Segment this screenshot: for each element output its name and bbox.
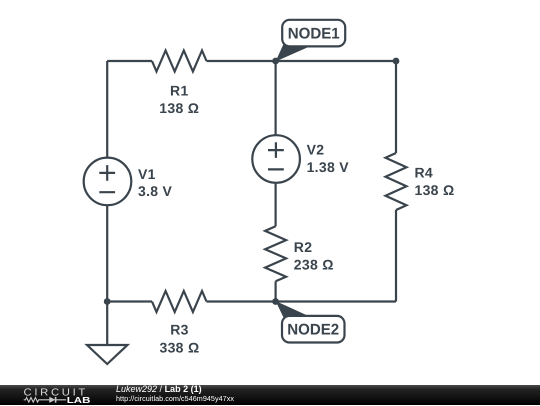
node NODE2 flag xyxy=(276,301,345,343)
svg-text:138 Ω: 138 Ω xyxy=(159,100,199,116)
wire bottom-left horizontal xyxy=(107,300,152,302)
svg-text:V1: V1 xyxy=(138,166,156,182)
svg-text:NODE2: NODE2 xyxy=(287,322,339,339)
svg-text:238 Ω: 238 Ω xyxy=(294,257,334,273)
wire middle rail upper (NODE1 junction to V2 top) xyxy=(275,61,277,135)
wire top horizontal NODE1 junction to top-right corner xyxy=(276,60,396,62)
svg-text:1.38 V: 1.38 V xyxy=(307,159,350,175)
wire bottom horizontal R3 to NODE2 junction xyxy=(207,300,276,302)
wire right rail upper (corner to R4 top) xyxy=(395,61,397,153)
wire middle rail (V2 bottom to R2 top) xyxy=(275,183,277,227)
node NODE2 junction dot xyxy=(272,298,279,305)
CircuitLab logo xyxy=(0,385,110,406)
svg-text:V2: V2 xyxy=(307,141,325,157)
wire bottom horizontal NODE2 junction to bottom-right corner xyxy=(276,300,396,302)
wire top-left horizontal xyxy=(107,60,152,62)
svg-text:R1: R1 xyxy=(170,83,189,99)
node NODE1 flag xyxy=(276,20,346,62)
wire ground stem xyxy=(106,302,108,346)
label V2 value xyxy=(307,141,350,175)
label V1 value xyxy=(138,166,173,199)
node NODE1 junction dot xyxy=(272,58,279,65)
voltage source V1 xyxy=(84,158,132,206)
resistor R2 xyxy=(265,226,286,281)
wire left rail upper (V1 top to corner) xyxy=(106,61,108,158)
node bottom-left junction dot xyxy=(104,298,111,305)
wire top horizontal R1 to NODE1 junction xyxy=(207,60,276,62)
svg-text:3.8 V: 3.8 V xyxy=(138,183,173,199)
resistor R4 xyxy=(386,153,407,210)
footer credit text xyxy=(116,385,234,404)
svg-text:LAB: LAB xyxy=(67,395,91,405)
label R1 value xyxy=(159,83,199,117)
label R4 value xyxy=(415,164,455,198)
label R3 value xyxy=(160,322,200,356)
ground xyxy=(87,345,127,364)
svg-text:R2: R2 xyxy=(294,239,313,255)
wire middle rail lower (R2 bottom to NODE2 junction) xyxy=(275,281,277,301)
svg-text:NODE1: NODE1 xyxy=(288,25,340,42)
wire right rail lower (R4 bottom to corner) xyxy=(395,210,397,302)
svg-text:138 Ω: 138 Ω xyxy=(415,182,455,198)
voltage source V2 xyxy=(252,135,300,183)
svg-text:338 Ω: 338 Ω xyxy=(160,340,200,356)
footer bar xyxy=(0,385,540,405)
svg-text:R4: R4 xyxy=(415,164,434,180)
wire left rail lower (V1 bottom to bottom-left junction) xyxy=(106,205,108,301)
resistor R3 xyxy=(152,291,207,312)
node top-right junction dot xyxy=(393,58,400,65)
svg-text:R3: R3 xyxy=(170,322,189,338)
resistor R1 xyxy=(152,51,207,72)
label R2 value xyxy=(294,239,334,273)
